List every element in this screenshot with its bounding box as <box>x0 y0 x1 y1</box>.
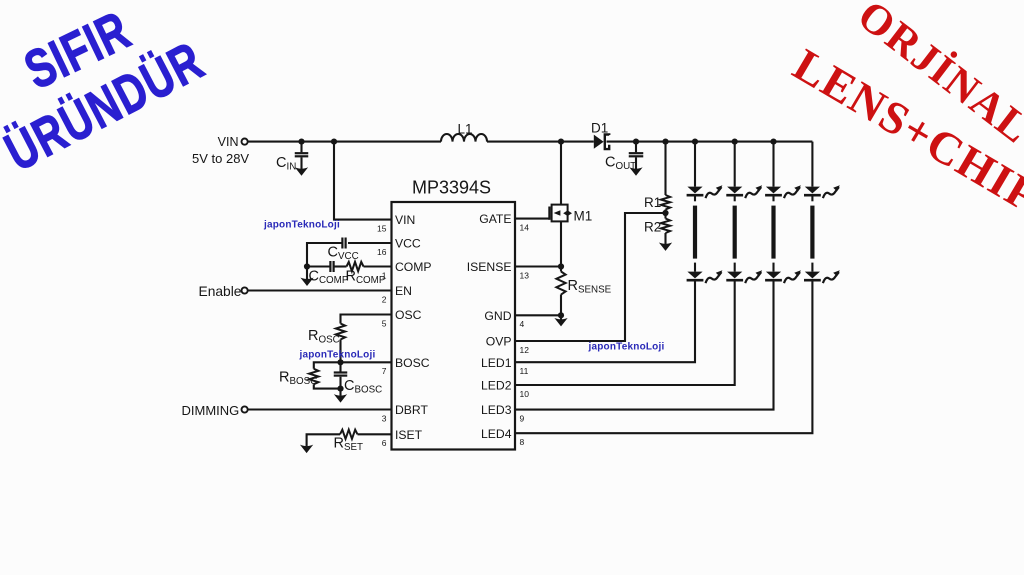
wire LED string 2 return to LED2 pin <box>515 280 735 385</box>
resistor RCOMP <box>334 265 347 267</box>
svg-text:ISENSE: ISENSE <box>467 260 512 274</box>
svg-text:DIMMING: DIMMING <box>182 403 240 418</box>
svg-text:OVP: OVP <box>486 335 512 349</box>
svg-text:LED3: LED3 <box>481 403 512 417</box>
ground below R2 <box>660 244 670 251</box>
svg-text:VCC: VCC <box>395 237 421 251</box>
wire DIMMING to DBRT pin <box>248 408 392 410</box>
svg-text:LED2: LED2 <box>481 379 512 393</box>
wire above LED D4b <box>811 263 813 272</box>
svg-text:Enable: Enable <box>199 284 242 299</box>
svg-text:10: 10 <box>520 389 530 399</box>
wire above LED D3b <box>772 263 774 272</box>
svg-text:japonTeknoLoji: japonTeknoLoji <box>588 342 665 353</box>
wire GND pin <box>515 314 561 316</box>
junction M1 drain node <box>558 139 564 145</box>
svg-text:6: 6 <box>382 438 387 448</box>
wire rail down to LED string 3 <box>772 142 774 187</box>
wire LED string 3 return to LED3 pin <box>515 280 774 409</box>
svg-text:ISET: ISET <box>395 428 423 442</box>
wire rail down to LED string 2 <box>734 142 736 187</box>
LED D3b <box>766 272 781 279</box>
svg-text:9: 9 <box>520 413 525 423</box>
ground below RSET <box>301 446 311 453</box>
svg-text:CCOMP: CCOMP <box>309 269 349 287</box>
svg-text:COMP: COMP <box>395 260 432 274</box>
junction R1-R2 OVP node <box>662 210 668 216</box>
wire below LED D1a <box>694 195 696 201</box>
svg-text:M1: M1 <box>574 209 593 224</box>
series LED string 4 continuation bar <box>810 206 814 259</box>
resistor R2 <box>664 213 666 219</box>
junction ISENSE node <box>558 263 564 269</box>
capacitor CIN <box>300 142 302 153</box>
junction COUT node <box>633 139 639 145</box>
wire ISENSE pin to RSENSE <box>515 265 561 267</box>
svg-text:5V to 28V: 5V to 28V <box>192 151 249 166</box>
LED D1b <box>687 272 702 279</box>
node VIN input terminal <box>242 139 248 145</box>
ground below GND <box>560 315 562 319</box>
resistor RSENSE <box>560 267 562 272</box>
capacitor CCOMP <box>307 265 330 267</box>
LED D2a <box>727 187 742 194</box>
series LED string 2 continuation bar <box>733 206 737 259</box>
LED D4a <box>805 187 820 194</box>
svg-text:8: 8 <box>520 437 525 447</box>
junction CBOSC bottom <box>337 386 343 392</box>
svg-text:7: 7 <box>382 366 387 376</box>
transistor M1 (N-MOSFET) <box>552 205 568 222</box>
svg-text:japonTeknoLoji: japonTeknoLoji <box>263 220 340 231</box>
svg-text:VIN: VIN <box>218 135 239 149</box>
wire above LED D2b <box>734 263 736 272</box>
svg-text:LED1: LED1 <box>481 356 512 370</box>
svg-text:4: 4 <box>520 319 525 329</box>
svg-text:ROSC: ROSC <box>308 328 340 346</box>
wire OVP pin to divider <box>515 213 666 341</box>
stamp ORJINAL LENS+CHIP (red) <box>785 0 1024 223</box>
svg-text:LED4: LED4 <box>481 427 512 441</box>
resistor RBOSC <box>314 362 341 369</box>
junction R1 top <box>662 139 668 145</box>
svg-text:CIN: CIN <box>276 155 296 173</box>
wire LED string 4 return to LED4 pin <box>515 280 812 433</box>
svg-text:BOSC: BOSC <box>395 356 430 370</box>
svg-text:5: 5 <box>382 318 387 328</box>
svg-text:12: 12 <box>520 345 530 355</box>
svg-text:R1: R1 <box>644 195 661 210</box>
svg-text:D1: D1 <box>591 121 608 136</box>
svg-text:GATE: GATE <box>479 212 511 226</box>
wire rail to M1 drain <box>560 142 562 205</box>
svg-text:15: 15 <box>377 223 387 233</box>
capacitor CBOSC <box>339 362 341 371</box>
LED D2b <box>727 272 742 279</box>
resistor R1 <box>664 142 666 195</box>
svg-text:L1: L1 <box>458 122 473 137</box>
svg-text:16: 16 <box>377 247 387 257</box>
svg-text:RSENSE: RSENSE <box>568 278 612 296</box>
svg-text:R2: R2 <box>644 220 661 235</box>
LED D3a <box>766 187 781 194</box>
wire below LED D4a <box>811 195 813 201</box>
wire OSC pin to ROSC <box>341 315 392 324</box>
wire input rail to L1 <box>248 141 441 143</box>
junction BOSC node <box>337 359 343 365</box>
svg-text:OSC: OSC <box>395 308 422 322</box>
LED D1a <box>687 187 702 194</box>
svg-text:japonTeknoLoji: japonTeknoLoji <box>299 350 376 361</box>
svg-text:11: 11 <box>520 366 529 376</box>
svg-text:MP3394S: MP3394S <box>412 178 491 198</box>
wire L1 to D1 <box>487 141 594 143</box>
svg-text:2: 2 <box>382 294 387 304</box>
wire GATE pin to M1 gate <box>515 218 549 220</box>
svg-text:EN: EN <box>395 284 412 298</box>
node DIMMING terminal <box>242 406 248 412</box>
svg-text:DBRT: DBRT <box>395 403 429 417</box>
wire BOSC node to BOSC pin <box>341 361 392 363</box>
junction LED string 3 top <box>770 139 776 145</box>
capacitor CVCC <box>341 238 343 249</box>
wire rail down to LED string 1 <box>694 142 696 187</box>
series LED string 1 continuation bar <box>693 206 697 259</box>
junction LED string 1 top <box>692 139 698 145</box>
junction GND node <box>558 312 564 318</box>
junction COMP ground node <box>304 263 310 269</box>
svg-text:VIN: VIN <box>395 213 415 227</box>
wire VCC pin to CVCC <box>348 242 392 244</box>
ground below BOSC network <box>339 389 341 396</box>
node Enable terminal <box>242 287 248 293</box>
svg-text:CBOSC: CBOSC <box>344 378 382 396</box>
wire rail down to LED string 4 <box>811 142 813 187</box>
op-amp U1 MP3394S chip body <box>392 202 516 450</box>
junction VIN-pin branch <box>331 139 337 145</box>
svg-text:14: 14 <box>520 222 530 232</box>
svg-text:13: 13 <box>520 270 530 280</box>
wire LED string 1 return to LED1 pin <box>515 280 695 362</box>
svg-text:RSET: RSET <box>334 436 364 454</box>
wire above LED D1b <box>694 263 696 272</box>
wire Enable to EN pin <box>248 289 392 291</box>
inductor L1 <box>441 134 487 142</box>
ground below COMP node <box>306 267 308 280</box>
ground below CIN <box>296 168 306 175</box>
resistor ROSC <box>336 324 345 340</box>
wire to VIN pin <box>334 142 392 220</box>
svg-text:GND: GND <box>484 309 511 323</box>
wire below LED D3a <box>772 195 774 201</box>
wire D1 to output rail <box>607 141 813 143</box>
series LED string 3 continuation bar <box>771 206 775 259</box>
resistor RSET <box>358 433 392 435</box>
wire M1 source down <box>560 221 562 266</box>
junction CIN node <box>298 139 304 145</box>
stamp SIFIR URUNDUR (blue) <box>0 0 214 183</box>
ground below COUT <box>631 168 641 175</box>
svg-text:RCOMP: RCOMP <box>346 269 386 287</box>
svg-text:3: 3 <box>382 413 387 423</box>
diode D1 (schottky) <box>594 135 604 149</box>
LED D4b <box>805 272 820 279</box>
capacitor COUT <box>635 142 637 153</box>
wire below LED D2a <box>734 195 736 201</box>
junction LED string 2 top <box>732 139 738 145</box>
